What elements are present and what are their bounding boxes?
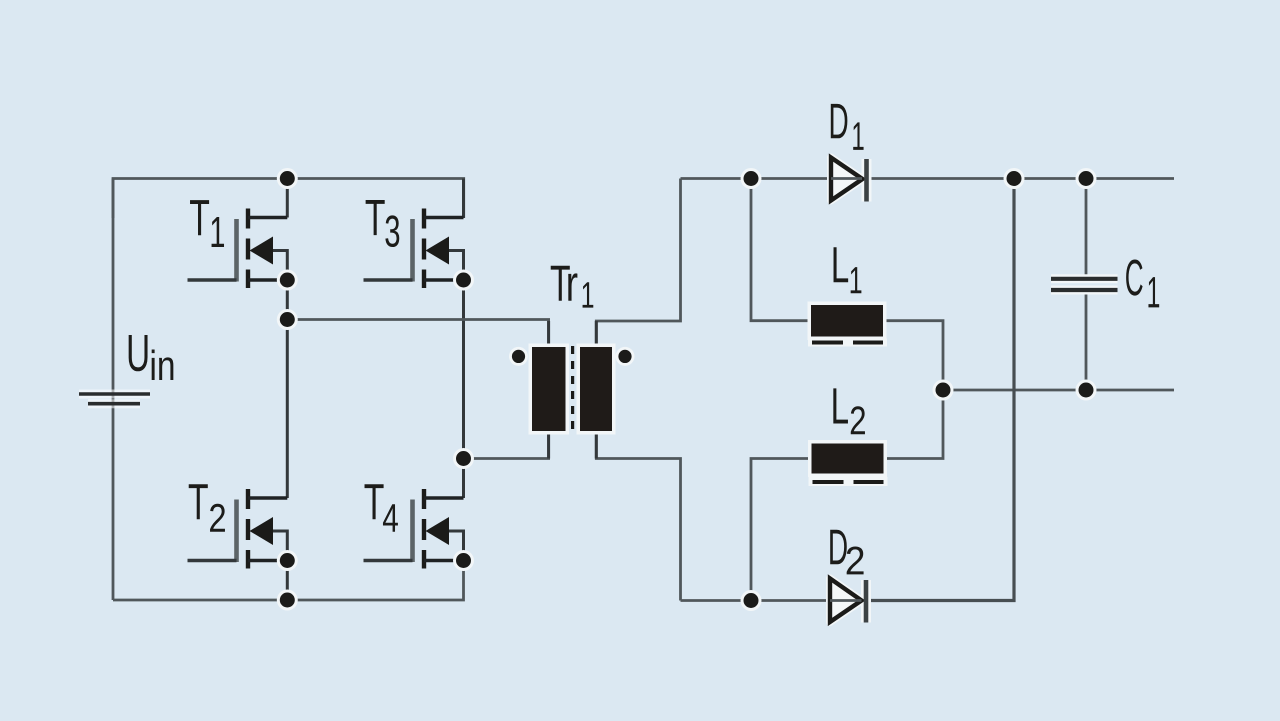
wire: C1 bottom lead <box>1085 292 1088 390</box>
wire: T2 source to bottom rail <box>286 561 289 601</box>
node: bottom rail <box>277 590 298 611</box>
transformer Tr1 <box>509 321 635 459</box>
wire: D1 cathode row to right edge <box>862 177 1174 180</box>
battery Uin <box>79 394 150 404</box>
node: top rail / T1 drain <box>277 168 298 189</box>
wire: L2 right lead <box>884 390 943 459</box>
label T2 <box>189 484 225 532</box>
wire: bottom-left rail <box>113 561 464 600</box>
wire: secondary top to D1 row <box>596 179 680 348</box>
node: C1 top <box>1076 168 1097 189</box>
node: T3 source <box>453 270 474 291</box>
node: bridge midpoint A <box>277 309 298 330</box>
label D2 <box>830 530 863 575</box>
label C1 <box>1126 260 1159 308</box>
label L1 <box>834 247 862 293</box>
transistor T1 <box>188 209 288 289</box>
wire: T1 drain connector <box>286 179 289 218</box>
transistor T2 <box>188 489 288 569</box>
transistor T3 <box>364 209 464 289</box>
wire: D2 anode row <box>681 599 831 602</box>
wire: top-left rail <box>113 179 464 219</box>
wire: T3/T4 leg <box>462 280 465 498</box>
wire: bridge midpoint B to transformer primary bottom <box>464 431 549 459</box>
node: L1/L2 output junction <box>933 380 954 401</box>
label L2 <box>833 388 865 434</box>
capacitor C1 <box>1051 279 1118 290</box>
inductor L2 <box>808 440 888 486</box>
inductor L1 <box>808 302 888 347</box>
wire: C1 top lead <box>1085 179 1088 278</box>
label T4 <box>365 484 398 532</box>
wire: L2 left leg to D2 node <box>751 459 812 601</box>
transistor T4 <box>364 489 464 569</box>
node: bridge midpoint B <box>453 448 474 469</box>
node: T1 source <box>277 270 298 291</box>
node: C1 bottom <box>1076 380 1097 401</box>
wire: secondary bottom to D2 row <box>596 431 680 601</box>
label Uin <box>129 335 174 380</box>
wire: T1/T2 leg <box>286 280 289 498</box>
wire: L1 right lead <box>883 321 943 390</box>
node: D1 anode tap <box>741 168 762 189</box>
node: D2 anode tap <box>741 590 762 611</box>
label T1 <box>190 200 224 247</box>
diode D1 <box>831 158 867 202</box>
diode D2 <box>830 579 866 623</box>
wire: D2 cathode row and riser to D1 row <box>862 179 1015 601</box>
wire: D1 anode row <box>681 177 832 180</box>
label T3 <box>366 200 400 247</box>
wire: T3 drain connector <box>462 179 465 219</box>
node: T2 source <box>277 550 298 571</box>
node: D cathodes junction <box>1004 168 1025 189</box>
label D1 <box>831 104 864 150</box>
wire: output plus row <box>943 389 1174 392</box>
wire: left rail <box>112 179 115 601</box>
label Tr1 <box>551 266 594 308</box>
wire: bridge midpoint A to transformer primary top <box>287 320 548 348</box>
wire: L1 left leg from D1 node <box>751 179 811 321</box>
node: T4 source <box>453 550 474 571</box>
